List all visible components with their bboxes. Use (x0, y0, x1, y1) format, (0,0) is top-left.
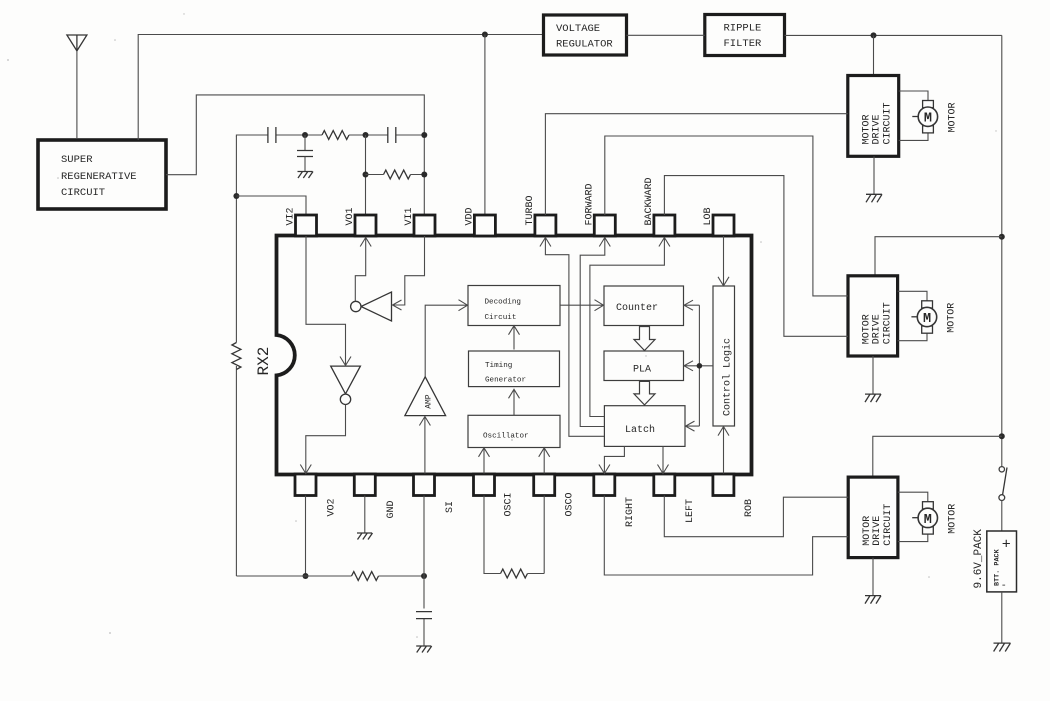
block MOTOR DRIVE CIRCUIT 1 (848, 76, 899, 157)
resistor R2 (horizontal, cap row) (322, 131, 349, 140)
svg-text:MOTOR: MOTOR (947, 504, 958, 534)
svg-text:GND: GND (386, 500, 397, 518)
wire bias row bottom (236, 575, 424, 577)
wire SI to AMP with up arrow (419, 417, 430, 474)
wire Latch to RIGHT with down arrow (599, 446, 625, 473)
motor M3 (898, 492, 959, 541)
pin BACKWARD (top 7) (654, 215, 675, 236)
svg-text:CIRCUIT: CIRCUIT (883, 302, 894, 344)
wire junction to MDC1 (873, 35, 875, 75)
motor M1 (899, 91, 959, 140)
wire BACKWARD to MDC2 (664, 176, 848, 337)
svg-text:AMP: AMP (425, 394, 434, 409)
pin OSCI (bottom 4) (474, 474, 495, 496)
svg-text:M: M (924, 112, 932, 127)
node I rail to MDC2 (999, 234, 1005, 240)
wire rail to MDC2 (875, 237, 1002, 276)
wire antenna to SRC (76, 51, 78, 138)
svg-text:SUPER: SUPER (61, 154, 93, 166)
ground below GND pin (357, 533, 373, 540)
wire right supply rail (1001, 35, 1003, 466)
wire inverter U4 output to VO2 with down arrow (300, 405, 345, 474)
block Timing Generator (469, 351, 560, 387)
svg-text:BACKWARD: BACKWARD (644, 177, 655, 225)
capacitor C2 (388, 127, 396, 143)
resistor R4 (horizontal, VO2-SI) (352, 572, 379, 581)
svg-text:Decoding: Decoding (485, 299, 521, 307)
svg-text:REGENERATIVE: REGENERATIVE (61, 171, 137, 183)
wire VI1 input to inverter with left arrow (393, 236, 425, 310)
pin VO2 (bottom 1) (295, 474, 316, 496)
wire SRC top to VDD supply rail (138, 35, 543, 141)
block Counter (604, 286, 684, 326)
node L SI junction (421, 573, 427, 579)
pin GND (bottom 2) (354, 474, 375, 496)
wire VO2 down (305, 496, 307, 577)
node K VO2 bias junction (303, 573, 309, 579)
svg-text:M: M (923, 312, 931, 327)
svg-text:Generator: Generator (485, 377, 526, 385)
node F left bias to VI2 junction (233, 193, 239, 199)
svg-text:PLA: PLA (633, 365, 651, 376)
pin RIGHT (bottom 6) (594, 474, 615, 496)
node D VO1 resistor junction (363, 172, 369, 178)
motor M2 (898, 291, 958, 340)
wire Oscillator to Timing Generator with up arrow (509, 389, 520, 415)
wire Decoding Circuit to Counter with right arrow (560, 300, 604, 311)
wire Latch to LEFT with down arrow (658, 446, 669, 473)
pin VO1 (top 2) (355, 215, 376, 236)
pin OSCO (bottom 5) (534, 474, 555, 496)
svg-text:VI1: VI1 (404, 207, 415, 225)
ground below C3 (298, 172, 314, 179)
svg-text:Oscillator: Oscillator (483, 433, 529, 441)
svg-text:LOB: LOB (703, 207, 714, 225)
svg-text:CIRCUIT: CIRCUIT (61, 187, 105, 199)
block MOTOR DRIVE CIRCUIT 2 (848, 276, 898, 356)
pin FORWARD (top 6) (594, 215, 615, 236)
node J rail to MDC3 (999, 433, 1005, 439)
svg-text:REGULATOR: REGULATOR (556, 39, 613, 51)
svg-text:SI: SI (445, 501, 456, 513)
wire Latch to TURBO with up arrow (540, 238, 604, 437)
node E VI1 resistor junction (421, 172, 427, 178)
pin ROB (bottom 8) (713, 474, 734, 496)
wire Control Logic to PLA with left arrow (684, 361, 713, 371)
node VDD rail junction (482, 32, 488, 38)
inverter U4 (VI2 to VO2, points down) (331, 366, 361, 404)
svg-text:OSCI: OSCI (504, 492, 515, 516)
wire LOB to Control Logic with down arrow (718, 236, 729, 286)
svg-text:DRIVE: DRIVE (872, 314, 883, 344)
pin VI2 (top 1) (296, 215, 317, 236)
svg-text:VO2: VO2 (327, 498, 338, 516)
svg-text:TURBO: TURBO (525, 195, 536, 225)
ground below C4 (416, 646, 432, 653)
wire VO1 net vertical (365, 135, 367, 215)
block Control Logic (713, 286, 735, 426)
wire SI down (423, 496, 425, 646)
svg-text:Latch: Latch (625, 424, 655, 436)
node A cap row left junction (302, 132, 308, 138)
block MOTOR DRIVE CIRCUIT 3 (848, 477, 898, 557)
wire RIGHT to MDC3 (604, 496, 848, 576)
wire cap row left (236, 135, 424, 137)
svg-text:VI2: VI2 (286, 207, 297, 225)
svg-text:VOLTAGE: VOLTAGE (556, 23, 600, 35)
svg-text:MOTOR: MOTOR (948, 102, 959, 132)
wire OSCI to Oscillator with up arrow (479, 448, 490, 474)
wire OSCO to Oscillator with up arrow (539, 448, 550, 474)
wire OSCI down (484, 496, 501, 574)
wire LEFT to MDC3 (664, 496, 848, 537)
wire regulator to filter (627, 34, 705, 36)
pin VI1 (top 3) (414, 215, 435, 236)
inverter U3 (VI1 to VO1, points left) (351, 292, 392, 321)
svg-text:-: - (1001, 581, 1007, 592)
svg-text:CIRCUIT: CIRCUIT (883, 504, 894, 546)
capacitor C3 (to ground) (297, 135, 313, 171)
wire VI2 input to inverter with down arrow (306, 236, 351, 366)
capacitor C4 (SI to ground) (416, 612, 432, 619)
wire Latch to FORWARD with up arrow (580, 238, 610, 427)
svg-text:FORWARD: FORWARD (584, 183, 595, 225)
ground below MDC2 (865, 356, 881, 402)
ground below MDC1 (866, 156, 882, 202)
wire bias to VI2 pin (236, 196, 306, 215)
svg-text:MOTOR: MOTOR (947, 303, 958, 333)
pin LEFT (bottom 7) (654, 474, 675, 496)
hollow arrow Counter to PLA (634, 327, 655, 351)
svg-text:DRIVE: DRIVE (872, 114, 883, 144)
node G feedback junction (697, 363, 703, 369)
wire left bias net vertical (235, 136, 237, 576)
wire rail to VDD pin (484, 35, 486, 216)
svg-text:M: M (924, 513, 932, 528)
svg-text:VDD: VDD (464, 207, 475, 225)
svg-text:CIRCUIT: CIRCUIT (883, 102, 894, 144)
pin LOB (top 8) (713, 215, 734, 236)
svg-text:RX2: RX2 (255, 347, 273, 376)
wire GND pin to ground (364, 496, 366, 533)
capacitor C1 (268, 127, 276, 143)
wire ROB to Control Logic with up arrow (718, 427, 729, 474)
ground below battery (994, 643, 1011, 651)
node C cap row right junction (421, 132, 427, 138)
block Decoding Circuit (468, 286, 560, 326)
wire TURBO to MDC1 (545, 114, 847, 215)
svg-text:Circuit: Circuit (485, 314, 517, 322)
wire Timing Generator to Decoding Circuit with up arrow (509, 326, 520, 350)
pin VDD (top 4) (474, 215, 495, 236)
svg-text:9.6V_PACK: 9.6V_PACK (973, 529, 985, 589)
svg-text:VO1: VO1 (345, 207, 356, 225)
wire SRC output to VI1 net (166, 95, 424, 215)
wire rail to MDC3 (873, 436, 1002, 477)
wire OSCO down (528, 496, 545, 574)
battery BT1 9.6V pack (973, 529, 1017, 592)
ground below MDC3 (865, 558, 881, 604)
resistor R3 (horizontal, VO1-VI1) (366, 170, 425, 179)
hollow arrow PLA to Latch (634, 381, 655, 405)
svg-text:FILTER: FILTER (724, 38, 763, 50)
block Oscillator (468, 415, 560, 447)
wire switch to battery (1001, 501, 1003, 532)
wire battery to ground (1001, 592, 1003, 643)
node H filter output junction (871, 32, 877, 38)
svg-text:Counter: Counter (616, 303, 658, 314)
svg-text:DRIVE: DRIVE (872, 516, 883, 546)
resistor R1 (vertical, left bias) (232, 343, 241, 370)
svg-text:+: + (1002, 537, 1011, 554)
resistor R5 (OSCI-OSCO) (501, 569, 528, 578)
svg-text:RIPPLE: RIPPLE (724, 23, 762, 35)
op-amp AMP (405, 377, 446, 416)
svg-text:LEFT: LEFT (685, 499, 696, 523)
wire into Counter right with left arrow (684, 300, 699, 310)
wire Control Logic feedback vertical (698, 305, 700, 426)
svg-text:RIGHT: RIGHT (625, 497, 636, 527)
IC U2 RX2 body outline with notch (277, 236, 752, 475)
pin SI (bottom 3) (414, 474, 435, 496)
block U1 SUPER REGENERATIVE CIRCUIT (38, 140, 166, 209)
wire filter to supply rail (785, 34, 1002, 36)
svg-text:ROB: ROB (744, 499, 755, 517)
svg-text:Timing: Timing (485, 362, 512, 370)
block Latch (604, 406, 685, 447)
wire AMP output to Decoding Circuit with right arrow (425, 300, 467, 377)
block RIPPLE FILTER (705, 15, 785, 56)
svg-text:Control Logic: Control Logic (722, 338, 734, 416)
node B cap row mid junction (363, 132, 369, 138)
svg-text:BTT. PACK: BTT. PACK (993, 548, 1001, 586)
switch S1 (999, 467, 1007, 501)
block PLA (604, 351, 684, 381)
wire FORWARD to MDC2 (605, 136, 848, 296)
pin TURBO (top 5) (535, 215, 556, 236)
antenna (67, 35, 87, 51)
wire into Latch right with left arrow (686, 421, 700, 431)
svg-text:OSCO: OSCO (565, 492, 576, 516)
wire VO1 output with up arrow (355, 238, 371, 302)
block VOLTAGE REGULATOR (544, 15, 627, 55)
wire Latch to BACKWARD with up arrow (590, 238, 670, 417)
